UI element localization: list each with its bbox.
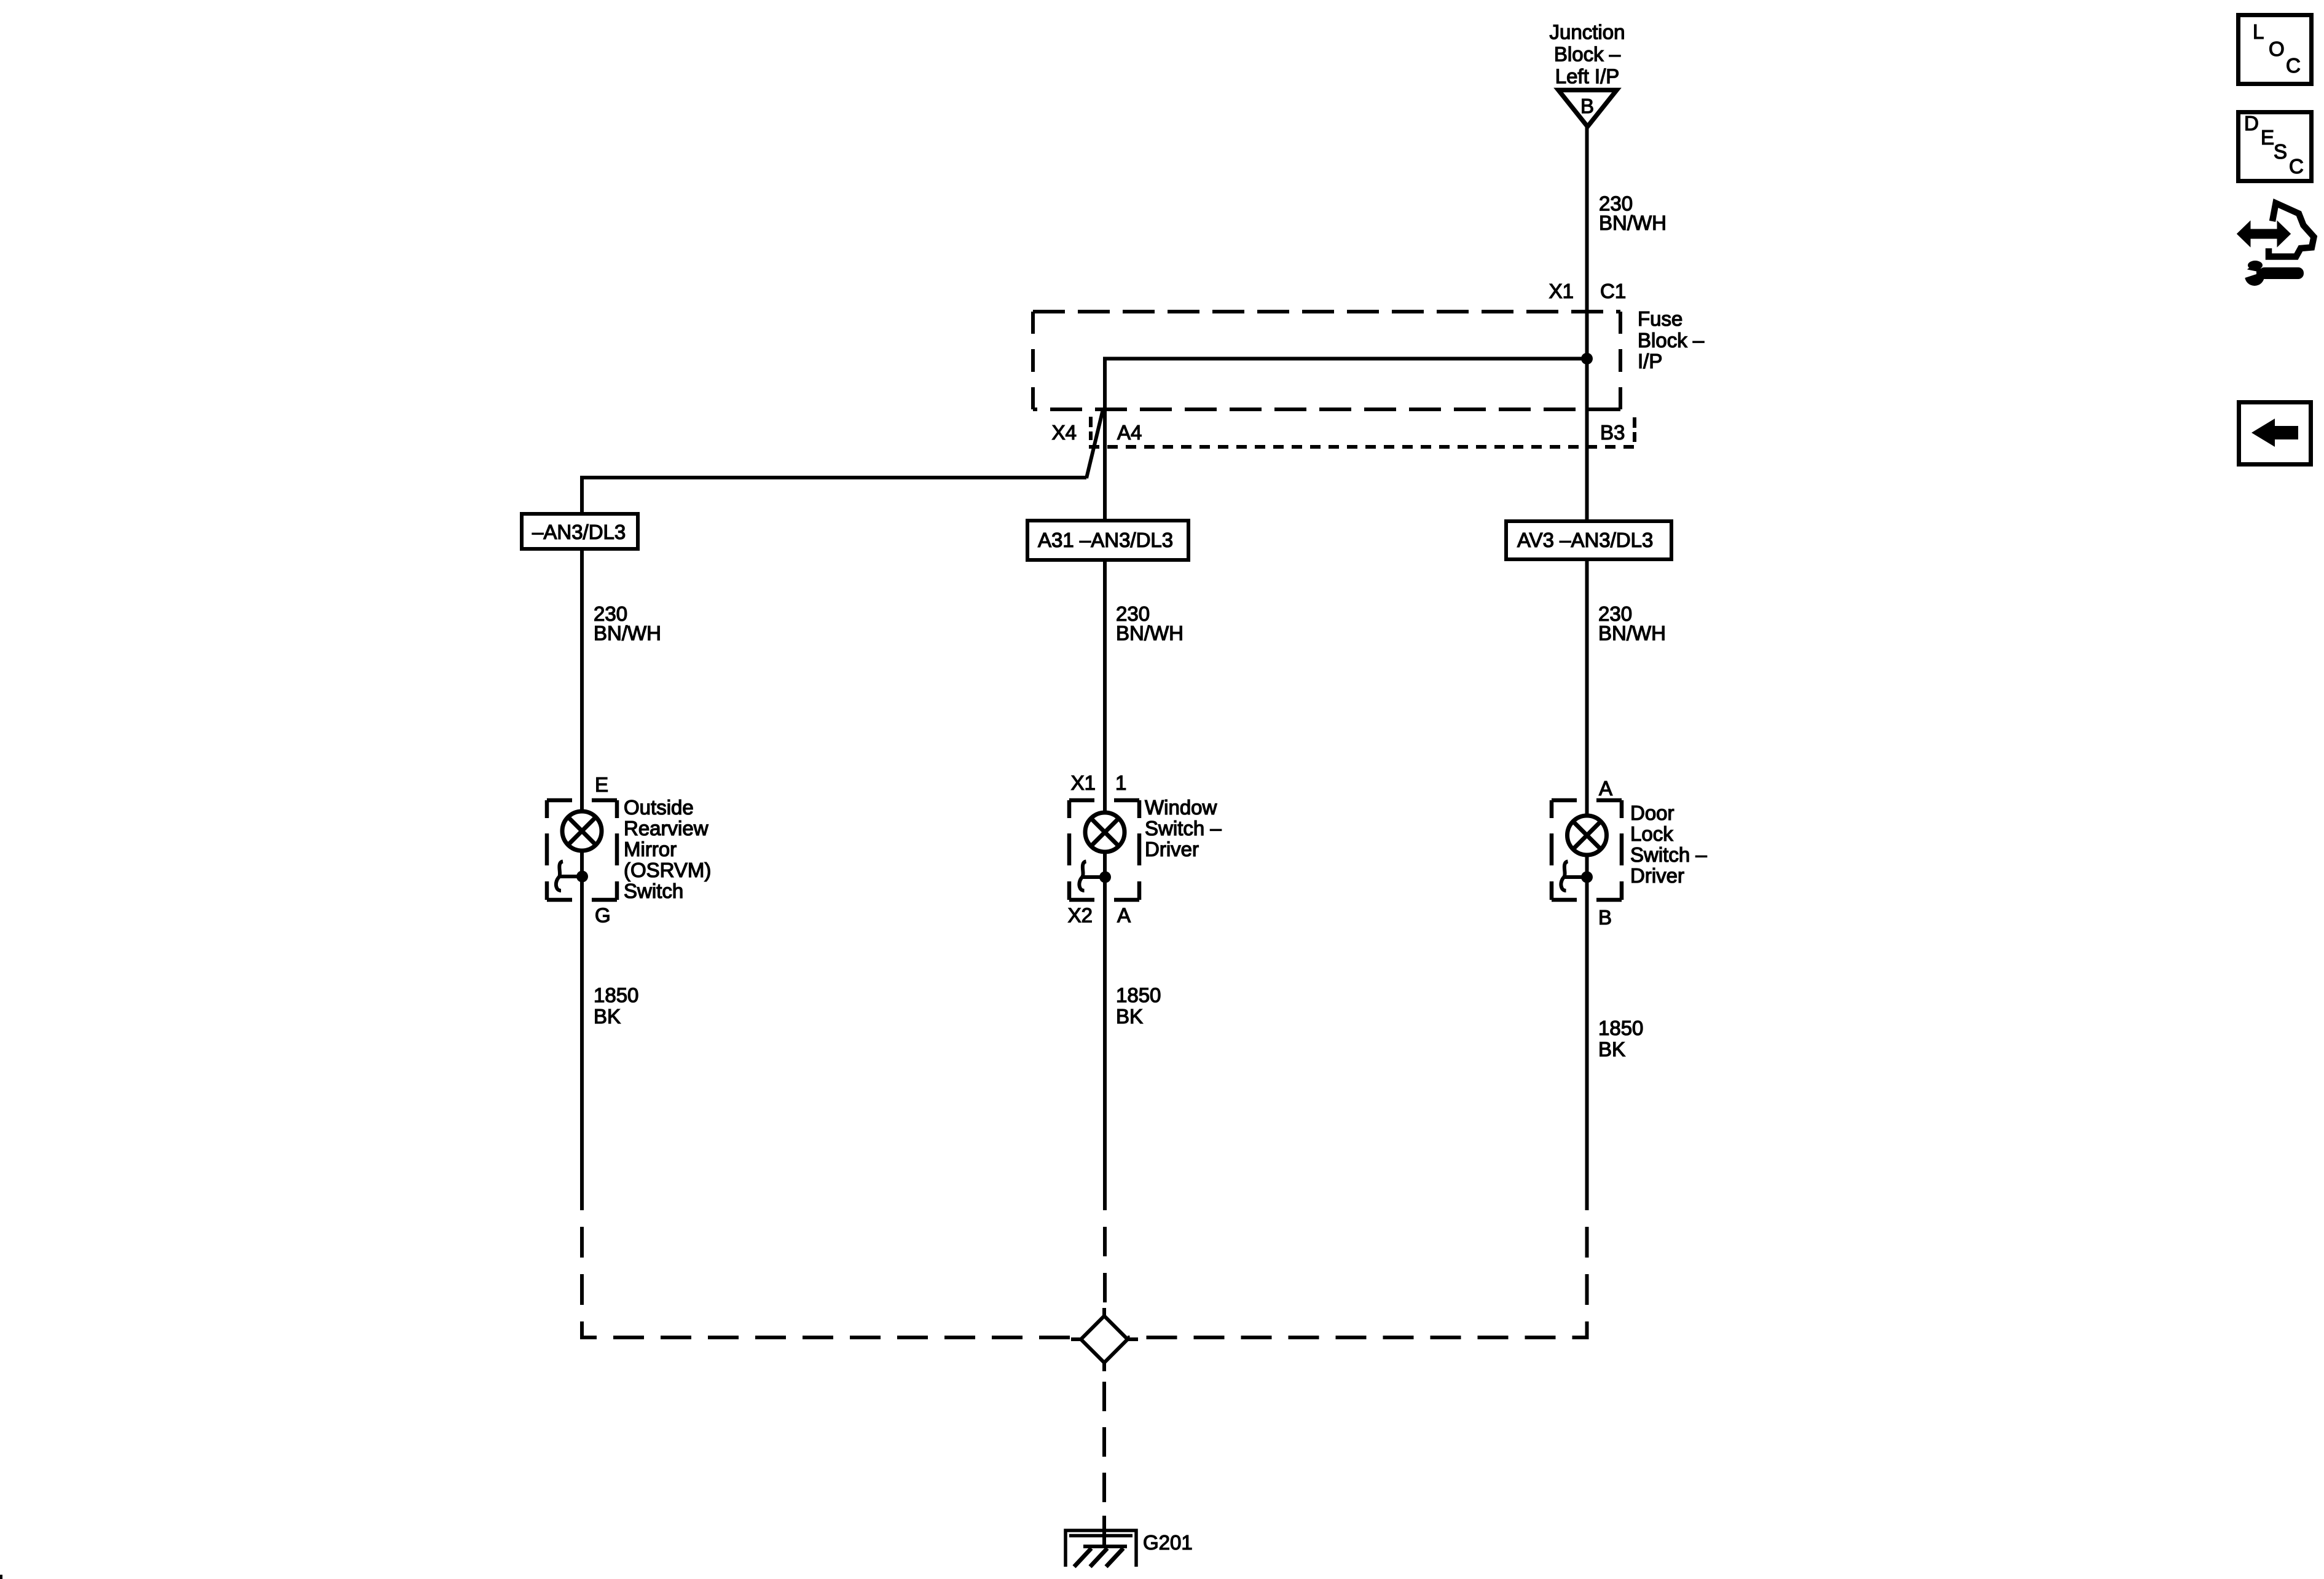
wire label 1850 BK (OSRVM branch) (594, 984, 638, 1028)
dashed ground wire: OSRVM branch to splice (582, 1210, 1081, 1337)
svg-text:1: 1 (1115, 771, 1126, 794)
dashed ground wire: window branch to splice (1103, 1210, 1107, 1316)
svg-text:Door: Door (1630, 801, 1674, 824)
svg-text:S: S (2274, 140, 2287, 163)
service/navigation icon (double arrow, outline, wrench) (2238, 203, 2314, 286)
svg-text:BN/WH: BN/WH (594, 622, 661, 645)
svg-text:X4: X4 (1052, 421, 1077, 444)
wire: junction block B down to fuse block pin C1 (1585, 127, 1589, 313)
wire: lamp to wiper contact (OSRVM) (580, 851, 584, 876)
wire: A31 box down to window switch (1103, 560, 1107, 813)
OSRVM switch name (624, 796, 711, 902)
wire: AV3 box down to door lock switch (1585, 559, 1589, 816)
svg-text:Switch –: Switch – (1145, 817, 1222, 840)
svg-text:A31 –AN3/DL3: A31 –AN3/DL3 (1038, 529, 1173, 551)
svg-text:Driver: Driver (1145, 838, 1199, 860)
junction dot (window wiper) (1099, 872, 1111, 883)
svg-text:BN/WH: BN/WH (1598, 622, 1666, 645)
window switch name (1145, 796, 1222, 860)
wire: OSRVM G down (solid) (580, 876, 584, 1210)
splice diamond stubs (1071, 1308, 1138, 1371)
svg-text:C: C (2289, 155, 2304, 178)
svg-text:Fuse: Fuse (1638, 307, 1682, 330)
svg-text:I/P: I/P (1638, 350, 1662, 372)
ground symbol G201 (1066, 1530, 1136, 1567)
svg-text:–AN3/DL3: –AN3/DL3 (532, 521, 626, 543)
wire label 230 BN/WH (door lock branch) (1598, 602, 1666, 645)
svg-text:BK: BK (1116, 1005, 1143, 1028)
junction dot (OSRVM wiper) (576, 871, 588, 883)
svg-text:1850: 1850 (594, 984, 638, 1007)
junction dot on main wire (1581, 353, 1593, 364)
connector tick right (B3) (1633, 417, 1636, 442)
junction block label "Junction Block - Left I/P" (1550, 21, 1625, 88)
wire label 230 BN/WH (top feed) (1599, 192, 1666, 235)
svg-text:1850: 1850 (1116, 984, 1161, 1007)
connector tick left (X4/A4) (1089, 417, 1093, 440)
svg-text:BN/WH: BN/WH (1116, 622, 1184, 645)
window switch wiper contact (1079, 862, 1105, 891)
door lock switch illumination lamp (1568, 816, 1607, 855)
harness label box -AN3/DL3 (522, 514, 638, 549)
splice diamond (1081, 1316, 1128, 1363)
svg-text:1850: 1850 (1598, 1017, 1643, 1039)
svg-text:BK: BK (1598, 1038, 1625, 1061)
wire: lamp to wiper contact (door lock) (1585, 855, 1589, 877)
svg-text:X1: X1 (1549, 280, 1574, 302)
svg-text:A: A (1599, 777, 1612, 800)
wire label 230 BN/WH (window switch branch) (1116, 602, 1184, 645)
door lock switch dashed connector box (1552, 800, 1622, 900)
svg-text:Outside: Outside (624, 796, 694, 819)
wire: splice left to OSRVM branch (582, 478, 1086, 514)
wire label 1850 BK (window branch) (1116, 984, 1161, 1028)
svg-text:BN/WH: BN/WH (1599, 211, 1666, 234)
door lock switch wiper contact (1561, 862, 1587, 891)
svg-text:O: O (2269, 37, 2285, 60)
wire label 1850 BK (door lock branch) (1598, 1017, 1643, 1061)
wire label 230 BN/WH (OSRVM branch) (594, 602, 661, 645)
svg-text:Mirror: Mirror (624, 838, 677, 860)
junction block B triangle symbol (1558, 90, 1617, 127)
wire: window A down (solid) (1103, 877, 1107, 1210)
svg-text:G201: G201 (1143, 1531, 1193, 1554)
svg-text:B: B (1580, 95, 1594, 117)
svg-text:B3: B3 (1600, 421, 1625, 444)
DESC icon box (2239, 112, 2312, 181)
wire: door lock B down (solid) (1585, 877, 1589, 1210)
wire into ground symbol (1102, 1516, 1106, 1546)
svg-text:Lock: Lock (1630, 822, 1673, 845)
dashed ground wire: door lock branch to splice (1128, 1210, 1587, 1337)
svg-text:B: B (1598, 906, 1612, 929)
harness label box A31 -AN3/DL3 (1027, 521, 1188, 560)
svg-text:Driver: Driver (1630, 864, 1684, 887)
svg-text:L: L (2253, 20, 2264, 43)
OSRVM switch wiper contact (556, 862, 582, 891)
diagonal wire splice at connector A4 (1086, 409, 1103, 478)
svg-text:Switch –: Switch – (1630, 843, 1707, 866)
fuse block I/P dashed outline (1033, 312, 1620, 409)
svg-text:AV3 –AN3/DL3: AV3 –AN3/DL3 (1517, 529, 1653, 551)
svg-text:Block –: Block – (1554, 43, 1621, 66)
fuse block label "Fuse Block - I/P" (1638, 307, 1705, 372)
page corner mark (0, 1575, 2, 1579)
svg-text:Switch: Switch (624, 880, 683, 902)
svg-text:E: E (595, 773, 608, 796)
window switch dashed connector box (1069, 800, 1139, 900)
svg-text:Rearview: Rearview (624, 817, 709, 840)
OSRVM switch illumination lamp (562, 811, 602, 851)
dashed wire: splice down to ground (1102, 1363, 1106, 1502)
window switch illumination lamp (1085, 813, 1125, 852)
wire: -AN3/DL3 box down to OSRVM switch (580, 549, 584, 811)
svg-text:Block –: Block – (1638, 329, 1705, 352)
wire: lamp to wiper contact (window) (1103, 852, 1107, 877)
svg-text:Window: Window (1145, 796, 1217, 819)
LOC icon box (2239, 15, 2312, 84)
svg-text:C1: C1 (1600, 280, 1626, 302)
svg-text:C: C (2286, 54, 2301, 77)
bus wire inside fuse block (junction to A4 corner) (1105, 359, 1587, 410)
harness label box AV3 -AN3/DL3 (1506, 521, 1671, 559)
wire: A4 vertical through connector down to A31 label box (1103, 409, 1107, 521)
door lock switch name (1630, 801, 1707, 887)
svg-text:D: D (2244, 112, 2259, 135)
svg-text:(OSRVM): (OSRVM) (624, 859, 711, 881)
svg-text:A4: A4 (1117, 421, 1142, 444)
svg-text:Left I/P: Left I/P (1555, 65, 1620, 88)
wire: C1 down through fuse block to junction (1585, 313, 1589, 359)
svg-text:A: A (1117, 904, 1131, 927)
svg-text:X1: X1 (1071, 771, 1096, 794)
wire: junction down to fuse block pin B3 and out (1585, 359, 1589, 522)
junction dot (door lock wiper) (1581, 872, 1593, 883)
svg-text:BK: BK (594, 1005, 621, 1028)
svg-text:E: E (2261, 126, 2274, 149)
svg-text:G: G (595, 904, 611, 927)
connector dotted line X4/A4/B3 (1089, 445, 1635, 449)
svg-text:X2: X2 (1068, 904, 1093, 927)
OSRVM switch dashed connector box (547, 800, 617, 900)
svg-text:Junction: Junction (1550, 21, 1625, 44)
back arrow icon box (2239, 403, 2311, 465)
